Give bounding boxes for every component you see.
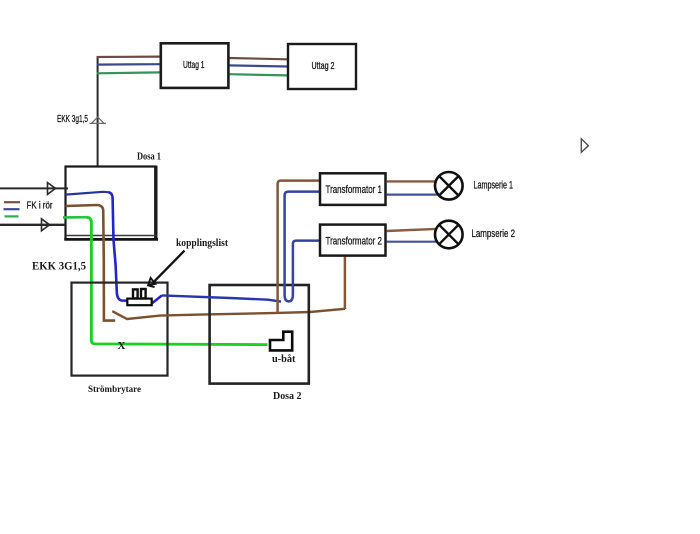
svg-text:EKK 3G1,5: EKK 3G1,5 bbox=[32, 259, 86, 273]
switch blade brown bbox=[112, 309, 345, 319]
box Uttag 2 bbox=[288, 44, 356, 89]
pointer arrow from kopplingslist label bbox=[155, 251, 185, 282]
wire: green inside Dosa 1 horizontal bbox=[63, 216, 87, 219]
svg-text:Dosa 2: Dosa 2 bbox=[273, 390, 302, 402]
svg-text:Uttag 2: Uttag 2 bbox=[312, 61, 335, 72]
box Dosa 1 bottom double line bbox=[66, 235, 157, 237]
wire: feed drop vertical black from top wires to Dosa 1 bbox=[97, 57, 99, 166]
svg-text:kopplingslist: kopplingslist bbox=[176, 238, 228, 249]
wire: brown run between Uttag 1 and Uttag 2 bbox=[229, 58, 287, 59]
svg-text:Strömbrytare: Strömbrytare bbox=[88, 384, 142, 395]
kopplingslist terminal block base bbox=[127, 299, 151, 306]
box Dosa 1 bbox=[66, 165, 157, 167]
box Uttag 1 bbox=[161, 43, 229, 88]
svg-text:u-båt: u-båt bbox=[272, 354, 296, 365]
wire: blue vertical from Dosa 1 down to kopplingslist bbox=[109, 192, 163, 302]
u-båt symbol bbox=[270, 332, 292, 351]
svg-text:Dosa 1: Dosa 1 bbox=[137, 152, 161, 163]
box Dosa 2 bbox=[210, 285, 309, 384]
wire: green run between Uttag 1 and Uttag 2 bbox=[229, 74, 287, 75]
svg-text:Lampserie 1: Lampserie 1 bbox=[474, 180, 514, 192]
wire: green run left of Uttag 1 bbox=[97, 71, 161, 74]
wire: blue from Transformator 1 to Lampserie 1 bbox=[387, 194, 438, 196]
wire: blue horizontal from kopplingslist to transformer U-loop bbox=[162, 295, 281, 301]
arrowhead on feed line 1 bbox=[48, 183, 56, 195]
wire: blue from Transformator 2 to Lampserie 2 bbox=[387, 241, 438, 243]
box Strömbrytare bbox=[72, 283, 168, 376]
kopplingslist terminal 1 bbox=[133, 289, 138, 298]
svg-text:Transformator 2: Transformator 2 bbox=[326, 235, 383, 247]
arrowhead on feed line 2 bbox=[42, 219, 50, 231]
legend green wire sample bbox=[5, 215, 19, 217]
svg-text:FK i rör: FK i rör bbox=[27, 201, 54, 212]
box Transformator 2 bbox=[320, 225, 386, 256]
box Transformator 1 bbox=[320, 173, 386, 205]
svg-text:Lampserie 2: Lampserie 2 bbox=[472, 228, 516, 240]
legend blue wire sample bbox=[4, 208, 20, 210]
legend brown wire sample bbox=[4, 201, 20, 203]
wire: brown inside Dosa 1 horizontal bbox=[66, 205, 98, 206]
wire: brown from Transformator 1 left down to switch line bbox=[278, 181, 320, 313]
svg-text:Transformator 1: Transformator 1 bbox=[326, 184, 383, 196]
lamp symbol Lampserie 1 bbox=[435, 172, 463, 200]
wire: brown vertical from Dosa 1 down to switch elbow bbox=[98, 205, 116, 321]
incoming feed line 1 with arrow bbox=[0, 187, 68, 189]
wire: blue run left of Uttag 1 bbox=[97, 63, 161, 66]
wire: blue run between Uttag 1 and Uttag 2 bbox=[229, 65, 287, 66]
mouse cursor arrow bbox=[581, 139, 588, 153]
wire: brown run left of Uttag 1 bbox=[97, 55, 161, 58]
wire: blue inside Dosa 1 horizontal bbox=[66, 192, 109, 195]
svg-text:Uttag 1: Uttag 1 bbox=[183, 60, 205, 71]
wire: brown from Transformator 2 bottom down to switch line bbox=[344, 257, 347, 310]
svg-text:EKK 3g1,5: EKK 3g1,5 bbox=[57, 114, 88, 125]
lamp symbol Lampserie 2 bbox=[435, 221, 463, 249]
wire: bright green vertical from Dosa 1 to Strömbrytare bbox=[87, 217, 268, 344]
incoming feed line 2 with arrow bbox=[0, 224, 65, 226]
wire: blue U-loop joining Transformator 1 and 2 bbox=[285, 192, 320, 302]
kopplingslist terminal 2 bbox=[141, 289, 146, 298]
svg-text:X: X bbox=[118, 340, 126, 352]
cable marker triangle on feed drop bbox=[90, 117, 107, 123]
wire: brown from Transformator 2 to Lampserie 2 bbox=[387, 229, 437, 231]
wire: brown from Transformator 1 to Lampserie 1 bbox=[387, 180, 437, 182]
